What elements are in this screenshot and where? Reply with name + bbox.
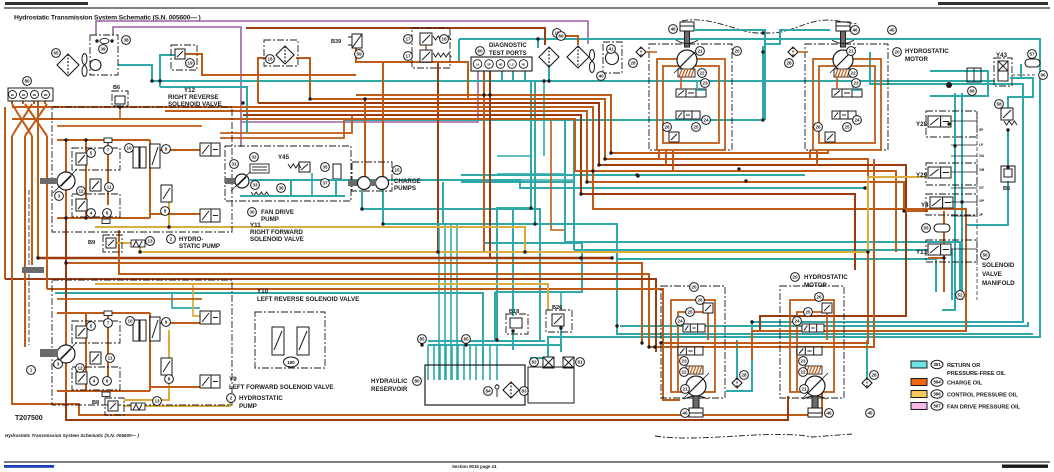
- hydrostatic motor RF brake line: [680, 77, 682, 89]
- svg-text:MOTOR: MOTOR: [905, 56, 928, 63]
- hydrostatic motor RR enclosure: [805, 44, 888, 150]
- valve housing box: [528, 367, 574, 403]
- wire return Y12 feed: [160, 87, 247, 133]
- valve block 100 box: [255, 312, 325, 368]
- svg-text:ND: ND: [499, 62, 503, 66]
- marker 16: [440, 35, 449, 44]
- wire return drop ext 3: [450, 224, 452, 380]
- valve Y29: [928, 167, 951, 178]
- connector block: [8, 88, 53, 101]
- marker 45 top motors: [888, 26, 897, 35]
- wire return drop ext 1: [438, 224, 440, 380]
- marker 83: [520, 387, 529, 396]
- svg-text:21: 21: [682, 387, 688, 392]
- hydrostatic pump right group relief valve 5: [76, 153, 87, 165]
- hydrostatic motor RF brake 22: [678, 69, 695, 77]
- marker 21 bottom motors: [800, 385, 809, 394]
- svg-text:60: 60: [477, 49, 483, 54]
- hydrostatic motor RR valve 24: [832, 111, 856, 119]
- wire charge motor2 port a: [809, 150, 811, 159]
- hydrostatic pump right group to reverse valve: [150, 149, 202, 151]
- svg-text:21: 21: [801, 387, 807, 392]
- hydrostatic pump left group subvalve box b: [72, 367, 120, 390]
- wire return rail 175: [461, 174, 805, 176]
- svg-text:VALVE: VALVE: [982, 271, 1002, 278]
- hydrostatic pump left group vert 2: [85, 313, 87, 391]
- marker 18: [266, 55, 275, 64]
- hydrostatic motor RF rotor: [674, 47, 700, 73]
- svg-text:TEST PORTS: TEST PORTS: [489, 51, 527, 57]
- marker 22 top motors: [698, 69, 707, 78]
- marker 18 center: [553, 29, 562, 38]
- legend oval 301: [931, 360, 943, 368]
- marker 5 pumps: [87, 149, 96, 158]
- marker 6 pumps: [103, 377, 112, 386]
- hydrostatic pump right group valve 11: [90, 179, 101, 191]
- svg-text:B5: B5: [1003, 186, 1010, 192]
- sensor B5 inner: [1004, 169, 1012, 177]
- marker 7 pumps: [104, 146, 113, 155]
- svg-text:FAN DRIVE: FAN DRIVE: [261, 209, 294, 216]
- svg-text:10: 10: [127, 319, 133, 324]
- fan motor small: [90, 60, 101, 71]
- hydrostatic motor LF swash arcs: [684, 396, 708, 399]
- valve Y4: [930, 197, 953, 208]
- svg-text:10: 10: [126, 146, 132, 151]
- wire return cyl link B: [765, 30, 830, 44]
- svg-text:96: 96: [1040, 73, 1046, 78]
- svg-text:83: 83: [521, 389, 527, 394]
- svg-text:80: 80: [414, 379, 420, 384]
- hydrostatic pump left group vert 3: [107, 313, 109, 378]
- svg-text:23: 23: [681, 359, 687, 364]
- svg-text:30: 30: [249, 210, 255, 215]
- svg-text:LEFT REVERSE SOLENOID VALVE: LEFT REVERSE SOLENOID VALVE: [257, 296, 359, 303]
- connector pin M1: [31, 91, 39, 99]
- marker 59: [355, 50, 364, 59]
- hydrostatic pump right group drive shaft: [40, 178, 58, 184]
- marker 26 top motors: [814, 123, 823, 132]
- hydrostatic pump right group valve 4: [76, 199, 87, 211]
- svg-text:8: 8: [168, 377, 171, 382]
- svg-text:28: 28: [871, 373, 877, 378]
- svg-text:M2: M2: [44, 93, 48, 97]
- wire return stub 156: [497, 155, 531, 157]
- hydrostatic motor LF valve 24: [683, 324, 705, 332]
- wire control yellow top rail: [95, 227, 525, 252]
- hydrostatic motor RR orange loop outer: [813, 59, 881, 150]
- valve 58 spring: [1004, 121, 1017, 125]
- marker 60: [476, 47, 485, 56]
- wire return b-rail 2: [494, 292, 496, 341]
- svg-text:39: 39: [100, 47, 106, 52]
- marker 25 bottom motors: [686, 308, 695, 317]
- svg-text:17: 17: [405, 37, 411, 42]
- manifold port rail: [976, 111, 978, 300]
- hydrostatic pump right group rail top: [57, 139, 150, 141]
- pump shaft left group: [40, 349, 58, 355]
- svg-text:Y4: Y4: [921, 202, 929, 209]
- wire return mid left rail: [55, 293, 483, 365]
- marker 65 cooler: [52, 49, 61, 58]
- wire Y45 teal a: [249, 179, 345, 181]
- marker 28 top motors: [629, 59, 638, 68]
- wire control Y10 feed: [193, 284, 200, 316]
- wire return bottom motor 2 stub: [866, 340, 868, 379]
- svg-text:B9: B9: [88, 240, 95, 246]
- wire charge B39 down: [356, 47, 468, 99]
- svg-text:19: 19: [187, 61, 193, 66]
- wire control B8 link: [124, 395, 230, 406]
- svg-text:80: 80: [24, 79, 30, 84]
- wire charge rail2b: [649, 159, 874, 347]
- wire return filter2 drop: [537, 39, 539, 48]
- screen B8: [131, 403, 145, 410]
- marker 35: [321, 163, 330, 172]
- marker 13 right: [146, 237, 155, 246]
- svg-text:B6: B6: [113, 85, 120, 91]
- test port 4D: [519, 60, 528, 69]
- valve Y28 box: [926, 111, 977, 137]
- marker 80 reservoir: [413, 377, 422, 386]
- svg-text:B39: B39: [331, 39, 341, 45]
- svg-text:41: 41: [608, 47, 614, 52]
- wire charge top rail 6: [243, 115, 855, 270]
- svg-text:9: 9: [165, 147, 168, 152]
- wire return drain branch: [513, 209, 540, 340]
- hydrostatic pump right group to forward valve: [150, 213, 202, 215]
- marker 82: [530, 358, 539, 367]
- valve 35 pilot: [299, 162, 310, 172]
- legend oval 306: [931, 390, 943, 398]
- hydrostatic pump left group vert 4: [149, 313, 151, 391]
- wire return main top rail: [152, 80, 995, 82]
- svg-text:PUMPS: PUMPS: [394, 185, 416, 192]
- marker 28 bottom motors: [740, 371, 749, 380]
- wire return reservoir drop 3: [445, 345, 447, 380]
- hydraulic reservoir: [425, 365, 525, 405]
- wire charge B6 drop: [119, 106, 121, 119]
- svg-text:57: 57: [1029, 52, 1035, 57]
- valve 17 lower: [420, 50, 432, 62]
- marker 4 pumps: [87, 209, 96, 218]
- svg-text:25: 25: [844, 125, 850, 130]
- svg-text:12: 12: [78, 189, 84, 194]
- svg-text:100: 100: [287, 360, 295, 365]
- svg-text:301: 301: [933, 362, 941, 367]
- footer rule: [4, 461, 1050, 463]
- svg-text:SOLENOID VALVE: SOLENOID VALVE: [168, 101, 222, 108]
- svg-text:13: 13: [147, 239, 153, 244]
- hydrostatic motor LF cylinder 46: [689, 396, 703, 417]
- marker 46 top motors: [669, 25, 678, 34]
- legend swatch 301 return oil: [911, 361, 927, 368]
- valve 37 comp: [333, 164, 341, 179]
- marker 21 top motors: [696, 47, 705, 56]
- filter 28 RF: [636, 47, 646, 57]
- svg-text:25: 25: [693, 125, 699, 130]
- legend oval 304: [931, 378, 943, 386]
- wire return drop ext 4: [456, 224, 458, 380]
- svg-text:23: 23: [853, 81, 859, 86]
- wire Y45 teal c: [290, 180, 292, 196]
- hydrostatic pump left group orifice b: [102, 392, 110, 397]
- svg-text:M1: M1: [33, 93, 37, 97]
- hydrostatic motor RR rotor: [830, 47, 856, 73]
- hydrostatic motor RR cylinder 46: [836, 22, 850, 47]
- wire return outer loop right: [459, 39, 1040, 358]
- marker 36: [277, 184, 286, 193]
- svg-text:36: 36: [278, 186, 284, 191]
- svg-text:81: 81: [577, 360, 583, 365]
- marker 11 pumps: [105, 183, 114, 192]
- wire return motor2 drain drop: [762, 46, 764, 120]
- wire charge manifold inner: [928, 211, 944, 292]
- wire return B18 drop: [512, 331, 514, 350]
- svg-text:6: 6: [106, 211, 109, 216]
- manifold port stubs: [951, 121, 977, 249]
- hydrostatic motor RR teal stub: [853, 80, 861, 90]
- marker 31: [230, 160, 239, 169]
- wire control valve8 bottom: [124, 330, 169, 400]
- hydrostatic pump left group pump rotor: [53, 342, 77, 366]
- marker 4 pumps: [90, 377, 99, 386]
- wire charge filter18 out: [296, 58, 310, 99]
- svg-text:306: 306: [933, 392, 941, 397]
- marker 24 bottom motors: [676, 317, 685, 326]
- wire return rail 242: [565, 242, 960, 300]
- wire charge left X cross B2: [25, 104, 47, 136]
- marker 12 pumps: [76, 364, 85, 373]
- marker 23 bottom motors: [799, 357, 808, 366]
- marker 57: [1028, 50, 1037, 59]
- svg-text:VIA: VIA: [979, 154, 985, 158]
- wire charge top rail 3: [258, 103, 906, 330]
- wire charge valve19 out: [183, 54, 356, 75]
- marker 25 top motors: [843, 123, 852, 132]
- svg-text:22: 22: [681, 370, 687, 375]
- wire charge mid rail b4: [47, 289, 680, 400]
- connector pin B1: [9, 91, 17, 99]
- svg-text:Hydrostatic Transmission Syste: Hydrostatic Transmission System Schemati…: [5, 433, 139, 438]
- marker 1: [27, 366, 36, 375]
- hydrostatic motor LR orange loop outer: [790, 300, 834, 392]
- marker 52: [956, 291, 965, 300]
- fan pump stroker 32: [250, 164, 269, 173]
- marker 23 top motors: [852, 79, 861, 88]
- svg-text:20: 20: [894, 50, 900, 55]
- svg-text:Y10: Y10: [257, 288, 269, 295]
- sensor B9 box: [103, 235, 122, 252]
- svg-text:28: 28: [786, 61, 792, 66]
- svg-text:PUMP: PUMP: [261, 216, 279, 223]
- wire charge left vert 3b: [31, 136, 33, 265]
- diagnostic port block: [471, 57, 532, 71]
- wire charge left vert 4: [46, 136, 48, 289]
- svg-text:55: 55: [923, 226, 929, 231]
- svg-text:PUMP: PUMP: [239, 403, 257, 410]
- hydrostatic motor RF swash arcs: [676, 40, 698, 44]
- hydrostatic pump right group valve 9: [150, 144, 160, 168]
- svg-text:26: 26: [815, 125, 821, 130]
- svg-text:20: 20: [691, 285, 697, 290]
- hydraulic fan: [590, 50, 595, 73]
- svg-text:11: 11: [107, 185, 112, 190]
- wire return from fan motor LL: [118, 65, 152, 81]
- svg-text:22: 22: [800, 370, 806, 375]
- hydrostatic motor LR enclosure: [780, 286, 844, 398]
- wire return bottom motor 1 stub: [736, 340, 738, 379]
- wire charge pump1 feed: [364, 99, 366, 177]
- marker 41: [607, 45, 616, 54]
- svg-text:CHARGE OIL: CHARGE OIL: [947, 381, 983, 387]
- valve 35 spring: [288, 164, 301, 168]
- marker 5 pumps: [87, 322, 96, 331]
- marker 32: [250, 153, 259, 162]
- wire charge bottom rail A: [12, 136, 822, 415]
- svg-text:HYDRAULIC: HYDRAULIC: [371, 378, 408, 385]
- wire return port 4D drop: [524, 71, 526, 81]
- hydrostatic pump left group valve 9: [150, 317, 160, 341]
- valve 17 upper spring: [433, 36, 451, 40]
- hydrostatic pump left group spool 10: [133, 320, 146, 341]
- marker 24 bottom motors: [793, 317, 802, 326]
- wire return B26 drop: [560, 328, 562, 352]
- wire charge fan2 feed: [555, 36, 578, 45]
- hydrostatic pump right group vert 1: [65, 140, 67, 218]
- fan motor enclosure: [90, 35, 118, 75]
- svg-text:45: 45: [867, 411, 873, 416]
- marker 28 top motors: [785, 59, 794, 68]
- marker 17 lower: [404, 52, 413, 61]
- wire return reservoir drop 7: [469, 345, 471, 380]
- hydrostatic pump right group vert 3: [107, 140, 109, 205]
- svg-text:307: 307: [933, 404, 941, 409]
- hydrostatic motor RR relief 26: [825, 132, 835, 142]
- svg-text:58: 58: [996, 102, 1002, 107]
- hydrostatic motor LR rotor: [802, 373, 828, 399]
- hydrostatic pump left group valve 11: [90, 352, 101, 364]
- wire return charge pump drain 1: [362, 190, 513, 316]
- svg-text:LA: LA: [476, 62, 480, 66]
- svg-text:35: 35: [322, 165, 328, 170]
- hydrostatic motor RR brake 22: [834, 69, 851, 77]
- legend swatch 304 charge oil: [911, 379, 927, 386]
- marker 22 bottom motors: [799, 368, 808, 377]
- connector pin B0: [20, 91, 28, 99]
- filter 28 RR: [788, 47, 798, 57]
- svg-text:25: 25: [687, 310, 693, 315]
- svg-text:22: 22: [699, 71, 705, 76]
- hydrostatic motor RR brake line: [836, 77, 838, 89]
- hydrostatic pump left group rail upper: [57, 298, 202, 300]
- wire return vertical c2: [534, 81, 536, 224]
- marker 56: [981, 251, 990, 260]
- wire return reservoir drop 6: [463, 345, 465, 380]
- svg-text:4: 4: [93, 379, 96, 384]
- marker 8 pumps: [161, 207, 170, 216]
- svg-text:28: 28: [630, 61, 636, 66]
- svg-text:Y11: Y11: [250, 222, 261, 229]
- check valve: [95, 38, 113, 43]
- wire charge left vert 3: [24, 136, 26, 347]
- sensor B3 divider: [973, 68, 975, 82]
- wire charge filter18 in: [258, 58, 270, 75]
- test port LS: [508, 60, 517, 69]
- wire return riser 443: [442, 182, 444, 224]
- wire return B5 down to manifold: [965, 181, 1008, 225]
- wire charge brick top rail: [246, 28, 545, 45]
- svg-text:B1: B1: [11, 93, 15, 97]
- marker 8 pumps: [165, 375, 174, 384]
- svg-text:17: 17: [405, 54, 411, 59]
- plug dot: [946, 82, 952, 88]
- filter 18 center: [539, 47, 559, 67]
- capsule 55: [934, 224, 950, 232]
- wire control valve8 top drop: [168, 200, 170, 227]
- svg-text:38: 38: [123, 38, 129, 43]
- marker 20 bottom motors: [690, 283, 699, 292]
- wire Y45 teal e: [311, 173, 313, 196]
- svg-text:RIGHT REVERSE: RIGHT REVERSE: [168, 94, 219, 101]
- svg-text:CHARGE: CHARGE: [394, 178, 421, 185]
- marker 21 top motors: [847, 47, 856, 56]
- marker 80 connector: [23, 77, 32, 86]
- wire return reservoir drop 11: [496, 345, 498, 380]
- wire Y45 teal b: [240, 195, 345, 197]
- svg-text:4D: 4D: [522, 62, 525, 66]
- svg-text:FAN DRIVE PRESSURE OIL: FAN DRIVE PRESSURE OIL: [947, 405, 1021, 411]
- hydrostatic motor LR orange loop inner: [797, 312, 827, 392]
- svg-text:STATIC PUMP: STATIC PUMP: [179, 243, 220, 250]
- marker 30: [248, 208, 257, 217]
- valve Y9 left forward: [200, 375, 220, 388]
- svg-text:15: 15: [394, 168, 400, 173]
- wire return reservoir drop 1: [433, 345, 435, 380]
- wire charge mid yellow rail: [140, 177, 926, 252]
- hydrostatic pump left group orifice a: [104, 311, 112, 316]
- marker 6 pumps: [103, 209, 112, 218]
- marker 10 pumps: [126, 317, 135, 326]
- wire return C-box top right: [930, 71, 988, 96]
- svg-text:24: 24: [854, 118, 860, 123]
- wire return reservoir drop 10: [489, 345, 491, 380]
- valve 58: [1001, 108, 1013, 120]
- wire charge valve19 drop: [257, 75, 259, 103]
- svg-text:31: 31: [231, 162, 237, 167]
- filter 18: [276, 46, 294, 64]
- hydrostatic motor RF relief 26: [669, 132, 679, 142]
- wire return manifold rail b: [961, 93, 963, 300]
- capsule 57: [1025, 59, 1040, 67]
- wire charge left X cross A2: [25, 104, 47, 136]
- svg-text:84: 84: [485, 389, 491, 394]
- hydrostatic motor RF orange loop outer: [657, 59, 725, 150]
- svg-text:LEFT FORWARD SOLENOID VALVE: LEFT FORWARD SOLENOID VALVE: [229, 384, 334, 391]
- test port SP: [485, 60, 494, 69]
- svg-text:24: 24: [794, 319, 800, 324]
- svg-text:MANIFOLD: MANIFOLD: [982, 280, 1015, 287]
- wire return Y45 rail: [345, 180, 865, 188]
- wire return rail 250: [574, 250, 952, 300]
- sensor B18 box: [506, 314, 528, 334]
- svg-text:7: 7: [107, 321, 110, 326]
- valve Y43: [998, 61, 1008, 81]
- wire charge motor1 port a: [658, 150, 660, 159]
- hydrostatic motor RR swash arcs: [832, 40, 854, 44]
- pump drive shaft line: [28, 190, 30, 345]
- radiator fan: [82, 54, 87, 77]
